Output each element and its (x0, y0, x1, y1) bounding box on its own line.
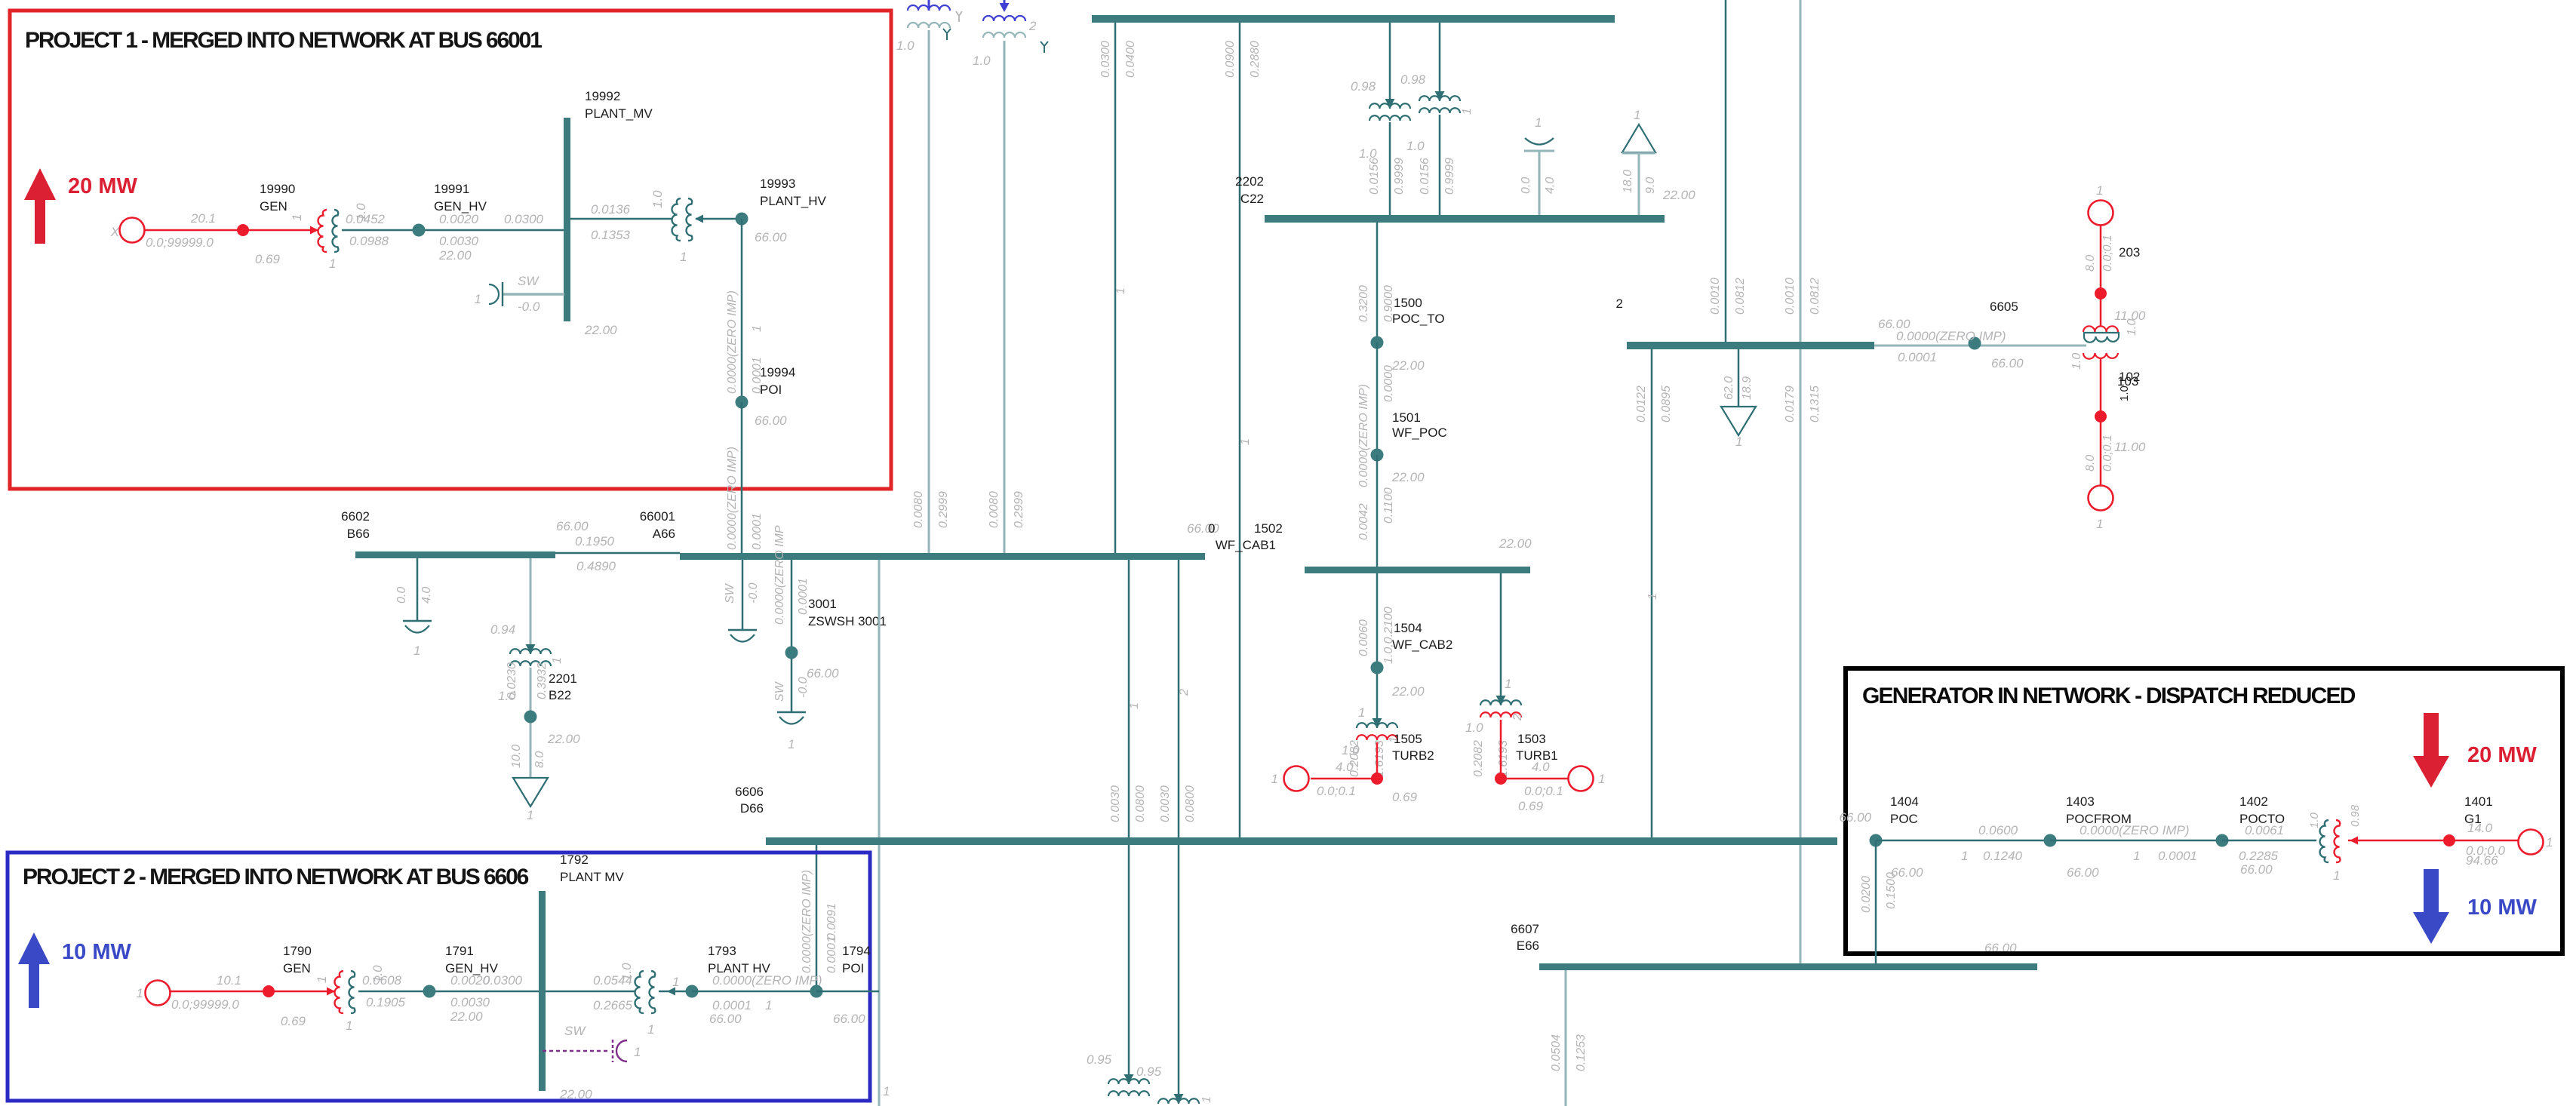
svg-text:1: 1 (290, 214, 304, 221)
wire 19993 to 19994 (zero imp) (741, 219, 743, 402)
wire long line A66 down (x1165) (878, 560, 881, 1106)
svg-text:POC: POC (1890, 812, 1918, 826)
svg-text:0.94: 0.94 (490, 622, 515, 637)
svg-text:0.0988: 0.0988 (349, 234, 389, 248)
svg-text:WF_CAB1: WF_CAB1 (1216, 538, 1276, 552)
svg-text:0.0812: 0.0812 (1809, 278, 1821, 315)
transformer T-A top bus to 2202 (1389, 23, 1391, 107)
svg-text:0.0080: 0.0080 (988, 491, 1001, 528)
transformer T 6602-2201 (530, 558, 532, 653)
svg-text:0.0001: 0.0001 (2158, 849, 2197, 863)
svg-text:0.9999: 0.9999 (1393, 158, 1406, 195)
svg-text:PROJECT 1 - MERGED INTO NETWOR: PROJECT 1 - MERGED INTO NETWORK AT BUS 6… (25, 28, 542, 53)
svg-text:1: 1 (551, 657, 564, 664)
svg-text:66.00: 66.00 (755, 413, 787, 428)
svg-text:0.0000(ZERO IMP): 0.0000(ZERO IMP) (1896, 329, 2006, 343)
svg-text:-0.0: -0.0 (518, 300, 540, 314)
svg-text:19991: 19991 (434, 182, 469, 196)
svg-text:-0.0: -0.0 (797, 677, 810, 698)
bus 6602 B66 (355, 551, 555, 558)
svg-text:1: 1 (2546, 835, 2553, 849)
svg-text:ZSWSH 3001: ZSWSH 3001 (808, 614, 887, 628)
svg-text:0.0030: 0.0030 (439, 234, 479, 248)
svg-text:1.6193: 1.6193 (1497, 740, 1510, 777)
svg-text:0.0;0.1: 0.0;0.1 (2101, 235, 2114, 272)
svg-text:1: 1 (634, 1045, 641, 1059)
svg-text:19993: 19993 (760, 177, 795, 191)
svg-text:0.0;0.1: 0.0;0.1 (1317, 784, 1356, 798)
svg-text:1: 1 (1634, 108, 1640, 122)
svg-text:22.00: 22.00 (559, 1087, 592, 1101)
svg-text:0.0812: 0.0812 (1734, 278, 1747, 315)
svg-text:6602: 6602 (341, 509, 370, 524)
svg-text:0.0000(ZERO IMP): 0.0000(ZERO IMP) (2080, 823, 2190, 837)
svg-text:1: 1 (672, 975, 679, 989)
annotation arrow 10 MW down (blue) (2413, 869, 2449, 944)
svg-text:0.0;0.1: 0.0;0.1 (1524, 784, 1563, 798)
svg-text:10.0: 10.0 (510, 745, 523, 768)
wire E66 down at x2075 (1565, 970, 1567, 1106)
node 19994 POI (736, 396, 749, 409)
wire gen 1790 to transformer (red) (171, 991, 334, 993)
svg-text:0.0091: 0.0091 (825, 903, 838, 940)
svg-text:66.00: 66.00 (2067, 865, 2099, 880)
svg-text:0.98: 0.98 (1400, 72, 1426, 87)
svg-text:1: 1 (315, 976, 329, 983)
svg-text:66.00: 66.00 (1891, 865, 1923, 880)
svg-text:0.0179: 0.0179 (1784, 386, 1797, 422)
svg-text:22.00: 22.00 (1391, 684, 1425, 699)
svg-text:4.0: 4.0 (420, 587, 433, 604)
svg-text:0.95: 0.95 (1087, 1052, 1112, 1067)
node 1790 GEN (263, 985, 275, 997)
wire D66 down to 1794 POI (816, 845, 818, 991)
wire TX to 1505 (red) (1376, 742, 1379, 779)
svg-text:6605: 6605 (1990, 300, 2018, 314)
svg-text:1401: 1401 (2464, 794, 2493, 809)
svg-text:1: 1 (765, 998, 772, 1012)
svg-text:66.00: 66.00 (833, 1012, 865, 1026)
switched shunt SW on A66 (742, 560, 744, 630)
svg-text:WF_POC: WF_POC (1392, 426, 1447, 440)
svg-text:PLANT_HV: PLANT_HV (760, 194, 827, 208)
wire 1403 to 1402 zero imp (2050, 840, 2222, 842)
svg-text:0.0000(ZERO IMP): 0.0000(ZERO IMP) (801, 870, 813, 973)
svg-text:0.1905: 0.1905 (366, 995, 406, 1009)
svg-text:0.0800: 0.0800 (1184, 785, 1197, 822)
svg-text:22.00: 22.00 (1662, 188, 1695, 202)
svg-text:0.0: 0.0 (1520, 177, 1532, 194)
svg-text:1: 1 (1646, 593, 1659, 600)
svg-text:0.0600: 0.0600 (1978, 823, 2018, 837)
svg-text:0.0080: 0.0080 (912, 491, 925, 528)
svg-text:1: 1 (2096, 517, 2103, 531)
svg-text:1793: 1793 (708, 944, 736, 958)
svg-text:POI: POI (842, 961, 864, 975)
bus 66001 A66 (680, 553, 1205, 560)
wire 2202 to 1500 (1376, 223, 1379, 343)
annotation box GENERATOR IN NETWORK (1846, 668, 2562, 954)
svg-text:9.0: 9.0 (1644, 177, 1657, 194)
svg-text:0.1100: 0.1100 (1382, 487, 1395, 524)
switched shunt SW dashed on 1792 (543, 1050, 608, 1052)
svg-text:0.2880: 0.2880 (1249, 41, 1262, 78)
bus 6607 E66 (1539, 963, 2037, 970)
svg-text:203: 203 (2119, 245, 2140, 260)
wire gen 19990 to transformer (red) (145, 229, 318, 232)
wire TX to 1401 (red) (2348, 840, 2518, 842)
svg-text:0.0001: 0.0001 (1898, 350, 1937, 364)
svg-text:0.3200: 0.3200 (1357, 285, 1370, 322)
svg-text:2202: 2202 (1235, 174, 1264, 189)
annotation box PROJECT 1 (10, 11, 891, 489)
svg-text:1.0: 1.0 (1465, 720, 1483, 735)
svg-text:0.3932: 0.3932 (536, 662, 549, 699)
svg-text:0.0300: 0.0300 (1099, 41, 1112, 78)
svg-text:0.0001: 0.0001 (712, 998, 752, 1012)
svg-text:14.0: 14.0 (2467, 821, 2493, 835)
svg-text:22.00: 22.00 (547, 732, 580, 746)
svg-text:0.98: 0.98 (1351, 79, 1376, 94)
svg-text:1404: 1404 (1890, 794, 1919, 809)
svg-text:GENERATOR IN NETWORK - DISPATC: GENERATOR IN NETWORK - DISPATCH REDUCED (1862, 684, 2356, 708)
wire 19994 POI to bus 66001 (741, 402, 743, 553)
bus 19992 PLANT_MV (564, 118, 570, 321)
svg-text:1: 1 (329, 257, 336, 271)
svg-text:66.00: 66.00 (1839, 810, 1871, 825)
svg-text:19994: 19994 (760, 365, 795, 379)
generator G1 circle (2519, 830, 2544, 855)
wire branch B66 - A66 (555, 552, 680, 555)
svg-text:66001: 66001 (640, 509, 675, 524)
transformer T-B top bus to 2202 (1439, 23, 1441, 100)
generator 102 circle (2089, 486, 2113, 511)
svg-text:62.0: 62.0 (1723, 376, 1735, 400)
svg-text:0.0061: 0.0061 (2245, 823, 2284, 837)
svg-text:66.00: 66.00 (807, 666, 839, 680)
svg-text:1: 1 (883, 1084, 890, 1098)
node 1503 TURB1 (1495, 773, 1507, 785)
svg-text:1: 1 (1358, 705, 1365, 720)
svg-text:0.1950: 0.1950 (575, 534, 615, 548)
svg-text:PROJECT 2 - MERGED INTO NETWOR: PROJECT 2 - MERGED INTO NETWORK AT BUS 6… (23, 865, 529, 889)
svg-text:0.0010: 0.0010 (1784, 278, 1797, 315)
wire blue TX2 down to bus 66001 (1004, 41, 1006, 553)
node 1794 POI (810, 985, 823, 998)
svg-text:1: 1 (475, 292, 481, 306)
svg-text:0.0000(ZERO IMP): 0.0000(ZERO IMP) (712, 973, 822, 988)
svg-text:94.66: 94.66 (2466, 853, 2498, 868)
svg-text:0: 0 (1208, 521, 1215, 536)
svg-text:0.2082: 0.2082 (1472, 740, 1485, 777)
wire to node 19993 (696, 218, 742, 220)
svg-text:1.0: 1.0 (2070, 353, 2083, 370)
wire 1500 to 1501 zero imp (1376, 343, 1379, 455)
node 1404 POC (1870, 834, 1883, 847)
svg-text:2: 2 (1511, 714, 1524, 721)
svg-text:1: 1 (1961, 849, 1968, 863)
node 203 (2095, 287, 2107, 300)
svg-text:1.0: 1.0 (1406, 139, 1425, 153)
svg-text:POC_TO: POC_TO (1392, 312, 1445, 326)
svg-text:1: 1 (647, 1022, 654, 1037)
svg-text:10 MW: 10 MW (62, 940, 131, 964)
svg-text:2: 2 (1028, 19, 1037, 33)
wire bus2 to node 6605 (1874, 345, 2086, 347)
transformer at bottom ckt2 (1174, 1094, 1184, 1103)
node 1791 GEN_HV (423, 985, 436, 998)
svg-text:GEN: GEN (260, 199, 287, 214)
svg-text:1791: 1791 (445, 944, 474, 958)
wire 1502 down to 1504 (1376, 573, 1379, 727)
transformer T 19992-19993 (672, 198, 681, 241)
svg-text:1: 1 (1271, 772, 1278, 786)
wire 1505 to gen circle (red) (1311, 778, 1377, 780)
svg-text:1: 1 (1735, 435, 1742, 449)
svg-text:1.0: 1.0 (619, 963, 634, 981)
svg-text:1.0: 1.0 (2118, 386, 2131, 401)
load on bus 2 (1738, 349, 1740, 407)
svg-text:66.00: 66.00 (2240, 862, 2273, 877)
svg-text:1.0: 1.0 (2308, 812, 2321, 828)
svg-text:0.2999: 0.2999 (1013, 491, 1025, 528)
wire to node 1793 (659, 991, 692, 993)
svg-text:18.0: 18.0 (1622, 170, 1634, 193)
svg-text:SW: SW (564, 1024, 586, 1038)
svg-text:0.0010: 0.0010 (1709, 278, 1722, 315)
bus 1502 WF_CAB1 (1305, 567, 1530, 573)
svg-text:10.1: 10.1 (217, 973, 241, 988)
node 6605 (1969, 337, 1981, 350)
node 19993 PLANT_HV (736, 213, 749, 226)
node 1500 POC_TO (1371, 336, 1384, 349)
svg-text:0.4890: 0.4890 (576, 559, 616, 573)
svg-text:0.0452: 0.0452 (346, 212, 386, 226)
node 3001 ZSWSH (785, 647, 798, 659)
svg-text:22.00: 22.00 (584, 323, 617, 337)
svg-text:0.0020: 0.0020 (439, 212, 479, 226)
svg-text:22.00: 22.00 (1499, 536, 1532, 551)
svg-text:0.1315: 0.1315 (1809, 386, 1821, 422)
svg-text:1: 1 (2133, 849, 2140, 863)
wire 1794 out to long line (816, 991, 879, 993)
svg-text:SW: SW (518, 274, 539, 288)
wire TX down to gen 102 (red) (2100, 358, 2102, 485)
svg-text:2: 2 (1616, 296, 1623, 311)
svg-text:0.98: 0.98 (2349, 804, 2362, 827)
svg-text:0.69: 0.69 (281, 1014, 306, 1028)
svg-text:1403: 1403 (2066, 794, 2095, 809)
svg-text:1794: 1794 (842, 944, 871, 958)
switched shunt SW on 19992 (503, 293, 564, 296)
svg-text:0.1353: 0.1353 (591, 228, 631, 242)
svg-text:0.1253: 0.1253 (1575, 1034, 1588, 1071)
svg-text:0.69: 0.69 (1518, 799, 1544, 813)
svg-text:1.0,0.2100: 1.0,0.2100 (1382, 607, 1395, 664)
svg-text:PLANT MV: PLANT MV (560, 870, 624, 884)
svg-text:1.0: 1.0 (973, 54, 991, 68)
wire A66 to D66 ckt 2 (1178, 560, 1180, 1103)
svg-text:6607: 6607 (1511, 922, 1539, 936)
svg-text:0.0200: 0.0200 (1860, 876, 1873, 913)
svg-text:1: 1 (1239, 438, 1252, 445)
svg-text:20 MW: 20 MW (68, 174, 137, 198)
svg-text:0.0156: 0.0156 (1368, 158, 1381, 195)
svg-text:1: 1 (413, 644, 420, 658)
svg-text:2201: 2201 (549, 671, 577, 686)
svg-text:0.0900: 0.0900 (1224, 41, 1237, 78)
svg-text:0.9999: 0.9999 (1443, 158, 1456, 195)
svg-text:22.00: 22.00 (1391, 358, 1425, 373)
svg-text:22.00: 22.00 (450, 1009, 483, 1024)
svg-text:2: 2 (1178, 689, 1191, 696)
svg-text:0.0000(ZERO IMP): 0.0000(ZERO IMP) (1357, 384, 1370, 487)
load on 2201 (513, 778, 548, 806)
svg-text:1504: 1504 (1394, 621, 1422, 635)
node 2201 B22 (524, 711, 537, 724)
bus 2202 C22 (1265, 215, 1665, 223)
svg-text:18.9: 18.9 (1741, 376, 1754, 400)
bus 1792 PLANT MV (539, 891, 546, 1091)
svg-text:0.0122: 0.0122 (1635, 386, 1648, 422)
svg-text:1.0: 1.0 (2126, 319, 2138, 336)
svg-text:1: 1 (1200, 1096, 1213, 1103)
svg-text:20 MW: 20 MW (2467, 743, 2537, 767)
svg-text:D66: D66 (740, 801, 764, 816)
bus 6606 D66 (766, 837, 1837, 845)
wire TX to 1503 (red) (1500, 720, 1502, 779)
svg-text:0.0030: 0.0030 (1159, 785, 1172, 822)
svg-text:19992: 19992 (585, 89, 620, 103)
svg-text:0.69: 0.69 (1392, 790, 1418, 804)
svg-text:22.00: 22.00 (1391, 470, 1425, 484)
svg-text:0.0156: 0.0156 (1419, 158, 1431, 195)
node 1504 WF_CAB2 (1371, 662, 1384, 674)
svg-text:0.0;99999.0: 0.0;99999.0 (146, 235, 214, 250)
node 19990 GEN (237, 224, 249, 236)
transformer T 6605-203/102 (red) (2084, 333, 2119, 336)
svg-text:E66: E66 (1517, 939, 1539, 953)
wire top bus to 66001 line 1 (1114, 23, 1117, 553)
svg-text:1500: 1500 (1394, 296, 1422, 310)
wire 1503 to gen circle (red) (1501, 778, 1568, 780)
svg-text:8.0: 8.0 (2084, 255, 2097, 272)
transformer T blue-2 at top (999, 0, 1010, 2)
svg-text:A66: A66 (653, 527, 675, 541)
transformer T 19990-19991 (310, 226, 318, 235)
wire 1502 down to TURB1 (1500, 573, 1502, 705)
annotation arrow 20 MW up (red) (24, 168, 56, 244)
svg-text:1: 1 (680, 250, 687, 264)
wire top bus to 6606 line (1239, 23, 1241, 837)
svg-text:3001: 3001 (808, 597, 837, 611)
svg-text:1402: 1402 (2239, 794, 2268, 809)
svg-text:1505: 1505 (1394, 732, 1422, 746)
svg-text:0.0136: 0.0136 (591, 202, 631, 217)
svg-text:0.0400: 0.0400 (1124, 41, 1137, 78)
svg-text:B66: B66 (347, 527, 370, 541)
svg-text:1: 1 (137, 986, 143, 1000)
svg-text:1: 1 (1461, 108, 1474, 115)
svg-text:0.0000(ZERO IMP): 0.0000(ZERO IMP) (726, 447, 739, 550)
svg-text:0.69: 0.69 (255, 252, 281, 266)
svg-text:1503: 1503 (1517, 732, 1546, 746)
wire bus2 down to 6606 at x2189 (1651, 349, 1653, 837)
svg-text:19990: 19990 (260, 182, 295, 196)
svg-text:0.2999: 0.2999 (937, 491, 950, 528)
svg-text:0.0060: 0.0060 (1357, 619, 1370, 656)
wire blue TX1 down to bus 66001 (928, 30, 930, 553)
svg-text:SW: SW (724, 582, 736, 604)
transformer T 1790-1791 (327, 988, 335, 996)
svg-text:4.0: 4.0 (1544, 177, 1557, 194)
node 1793 PLANT_HV (686, 985, 699, 998)
wire 1402 to transformer (2222, 840, 2316, 842)
wire 1792 to transformer 1793 (546, 991, 635, 993)
svg-text:1: 1 (527, 808, 533, 822)
svg-text:0.1240: 0.1240 (1983, 849, 2023, 863)
svg-text:1: 1 (346, 1018, 352, 1033)
generator TURB2 circle (1284, 767, 1309, 791)
svg-text:66.00: 66.00 (556, 519, 589, 533)
svg-text:0.2285: 0.2285 (2239, 849, 2279, 863)
svg-text:POI: POI (760, 382, 782, 397)
svg-text:0.0504: 0.0504 (1550, 1034, 1563, 1071)
wire 1791 to 1792 bus (358, 991, 539, 993)
svg-text:6606: 6606 (735, 785, 764, 799)
svg-text:0.0608: 0.0608 (362, 973, 402, 988)
wire 19991 to 19992 bus (342, 229, 564, 232)
svg-text:TURB2: TURB2 (1392, 748, 1434, 763)
svg-text:0.0030: 0.0030 (450, 995, 490, 1009)
svg-text:20.1: 20.1 (190, 211, 216, 226)
wire line at x2386 from top to 6607 (1800, 0, 1802, 963)
svg-text:C22: C22 (1240, 192, 1264, 206)
transformer T 1502-1503 (1496, 696, 1506, 705)
svg-text:0.0030: 0.0030 (1109, 785, 1122, 822)
wire A66 to D66 ckt 1 (1128, 560, 1130, 1084)
svg-text:0.0: 0.0 (395, 587, 408, 604)
generator TURB1 circle (1569, 767, 1594, 791)
wire 19992 to transformer 19993 (570, 218, 672, 220)
svg-text:0.0;0.1: 0.0;0.1 (2101, 435, 2114, 472)
svg-text:1.0: 1.0 (896, 38, 915, 53)
svg-text:0.0000(ZERO IMP): 0.0000(ZERO IMP) (726, 290, 739, 394)
svg-text:1: 1 (2096, 183, 2103, 198)
svg-text:0.0230: 0.0230 (506, 662, 518, 699)
svg-text:4.0: 4.0 (1532, 760, 1550, 774)
svg-text:0.0042: 0.0042 (1357, 503, 1370, 540)
svg-text:WF_CAB2: WF_CAB2 (1392, 637, 1452, 652)
svg-text:0.0000(ZERO IMP: 0.0000(ZERO IMP (773, 525, 786, 625)
svg-text:0.0;99999.0: 0.0;99999.0 (171, 997, 239, 1012)
wire line at x2287 from top (1725, 0, 1727, 342)
svg-text:0.0300: 0.0300 (483, 973, 523, 988)
svg-text:1: 1 (1128, 702, 1141, 709)
svg-text:66.00: 66.00 (709, 1012, 742, 1026)
node 1501 WF_POC (1371, 449, 1384, 462)
svg-text:8.0: 8.0 (533, 751, 546, 768)
wire 1793 to 1794 (692, 991, 816, 993)
svg-text:1501: 1501 (1392, 410, 1421, 425)
annotation box PROJECT 2 (8, 853, 870, 1101)
svg-text:0.0001: 0.0001 (825, 936, 838, 973)
transformer T 1402-1401 (red/teal) (2320, 820, 2329, 862)
node 1402 POCTO (2216, 834, 2229, 847)
svg-text:1790: 1790 (283, 944, 312, 958)
annotation arrow 10 MW up (blue) (18, 932, 50, 1008)
svg-text:0.0895: 0.0895 (1660, 386, 1673, 422)
